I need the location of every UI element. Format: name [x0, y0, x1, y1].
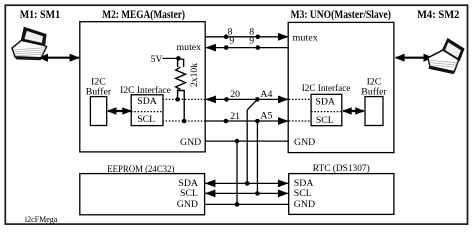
svg-text:M3: UNO(Master/Slave): M3: UNO(Master/Slave): [291, 7, 391, 21]
board M2 MEGA (box): [80, 22, 205, 152]
svg-text:SDA: SDA: [137, 96, 157, 107]
svg-text:i2cFMega: i2cFMega: [25, 215, 58, 224]
wire UNO-SM2 link (double-headed arrow): [395, 54, 434, 62]
svg-text:GND: GND: [180, 137, 201, 148]
wire SDA dotted (inside MEGA): [162, 98, 205, 100]
box RTC: [289, 174, 394, 215]
node pin A4: [255, 97, 260, 102]
arrowhead into RTC SDA: [278, 180, 289, 188]
arrowhead into MEGA mutex (pin 9): [205, 44, 216, 52]
arrowhead into UNO pin A4: [278, 96, 289, 104]
node pin 21: [224, 119, 229, 124]
node GND bus junction: [235, 202, 240, 207]
resistor R 2x10k (pull-ups): [176, 58, 186, 121]
svg-text:A5: A5: [260, 111, 272, 122]
svg-text:I2C Interface: I2C Interface: [302, 83, 351, 94]
wire GND bus EEPROM-RTC: [205, 203, 289, 205]
wire interface-buffer double arrow (UNO): [342, 107, 365, 115]
arrowhead into EEPROM SDA: [205, 180, 216, 188]
wire SDA dotted (inside UNO): [289, 98, 311, 100]
box I2C Buffer U-buf1 (MEGA): [90, 97, 106, 126]
wire SM1-MEGA link (double-headed arrow): [38, 54, 80, 62]
svg-text:RTC (DS1307): RTC (DS1307): [313, 163, 370, 174]
svg-text:2x10k: 2x10k: [190, 63, 200, 87]
svg-text:mutex: mutex: [177, 42, 202, 53]
wire SDA net pin20/A4 between boards: [206, 98, 289, 100]
svg-text:9: 9: [249, 35, 254, 46]
svg-text:SCL: SCL: [180, 188, 198, 199]
divider SDA/SCL dotted (UNO): [311, 111, 342, 113]
wire mutex line pin9 UNO to MEGA: [206, 47, 289, 49]
wire mutex line pin8 MEGA to UNO: [205, 36, 288, 38]
label I2C Buffer (UNO): [361, 76, 387, 97]
svg-text:GND: GND: [294, 199, 315, 210]
node resistor to SCL: [182, 119, 187, 124]
box I2C Interface (UNO): [311, 94, 342, 125]
node pin 8 MEGA side: [224, 35, 229, 40]
node SDA bus junction: [245, 181, 250, 186]
svg-text:A4: A4: [260, 89, 272, 100]
wire SCL bus EEPROM-RTC: [205, 192, 289, 194]
svg-text:M2: MEGA(Master): M2: MEGA(Master): [102, 7, 185, 21]
node pin 20: [224, 97, 229, 102]
box EEPROM: [80, 174, 205, 215]
svg-text:Buffer: Buffer: [361, 86, 387, 97]
arrowhead into RTC SCL: [278, 190, 289, 198]
box I2C Interface (MEGA): [131, 95, 163, 126]
computer SM2 (laptop icon): [428, 39, 464, 74]
svg-text:I2C Interface: I2C Interface: [120, 85, 171, 96]
node resistor to SDA: [175, 97, 180, 102]
svg-text:GND: GND: [294, 137, 315, 148]
wire SCL dotted (inside UNO): [289, 120, 311, 122]
wire SCL vertical drop: [256, 121, 258, 193]
svg-text:SCL: SCL: [137, 114, 155, 125]
divider SDA/SCL dotted (MEGA): [131, 111, 163, 113]
svg-text:21: 21: [230, 111, 240, 122]
wire SDA diagonal branch from A4 node: [247, 99, 257, 110]
wire SCL net pin21/A5 between boards: [205, 120, 289, 122]
wire SDA vertical drop: [246, 110, 248, 183]
wire buffer-interface double arrow (MEGA): [107, 107, 132, 115]
node pin 9 MEGA side: [224, 45, 229, 50]
svg-text:SCL: SCL: [294, 188, 312, 199]
arrowhead into MEGA pin 20: [205, 96, 216, 104]
board M3 UNO (box): [288, 22, 394, 152]
svg-text:M1: SM1: M1: SM1: [20, 7, 60, 21]
svg-text:SCL: SCL: [316, 115, 334, 126]
svg-text:mutex: mutex: [293, 33, 318, 44]
svg-text:SDA: SDA: [315, 96, 335, 107]
wire GND net between boards: [205, 140, 289, 142]
label I2C Buffer (MEGA): [86, 76, 112, 97]
node pin 9 UNO side: [255, 45, 260, 50]
svg-text:20: 20: [230, 89, 240, 100]
arrowhead into UNO pin A5: [278, 117, 289, 125]
svg-text:Buffer: Buffer: [86, 86, 112, 97]
wire SCL dotted (inside MEGA): [162, 120, 205, 122]
svg-text:5V: 5V: [151, 54, 163, 65]
svg-text:9: 9: [229, 35, 234, 46]
node SCL bus junction: [255, 191, 260, 196]
node GND junction: [235, 139, 240, 144]
box I2C Buffer U-buf2 (UNO): [365, 97, 383, 126]
node pin 8 UNO side: [255, 35, 260, 40]
svg-text:GND: GND: [177, 199, 198, 210]
computer SM1 (laptop icon): [12, 28, 47, 60]
wire 5V feed: [163, 57, 179, 59]
svg-text:M4: SM2: M4: SM2: [417, 7, 459, 21]
node pin A5: [255, 119, 260, 124]
node 5V junction: [176, 56, 181, 61]
arrowhead into UNO mutex (pin 8): [278, 33, 289, 41]
arrowhead into EEPROM SCL: [205, 190, 216, 198]
wire GND vertical drop: [236, 141, 238, 204]
wire SDA bus EEPROM-RTC: [205, 182, 289, 184]
